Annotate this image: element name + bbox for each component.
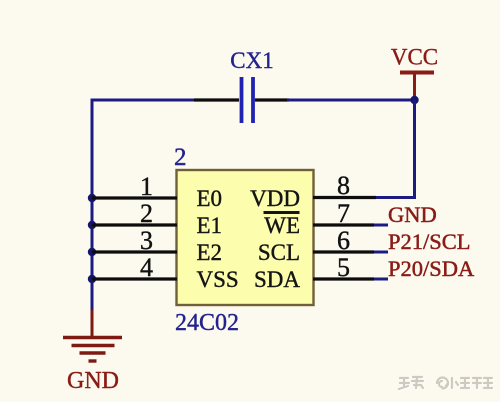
svg-text:7: 7 [337, 199, 350, 228]
svg-text:VSS: VSS [197, 267, 239, 292]
svg-text:P21/SCL: P21/SCL [388, 229, 471, 254]
junction [88, 248, 96, 256]
svg-text:VCC: VCC [391, 45, 438, 70]
pin 4 [92, 253, 177, 282]
junction [88, 194, 96, 202]
svg-text:WE: WE [264, 213, 300, 238]
watermark (decorative) [399, 377, 493, 390]
svg-text:SDA: SDA [254, 267, 300, 292]
svg-text:GND: GND [388, 202, 437, 227]
junction [88, 275, 96, 283]
svg-text:GND: GND [67, 368, 119, 394]
svg-text:2: 2 [140, 199, 153, 228]
pin 7 [313, 199, 388, 228]
IC U2 24C02 body [177, 170, 314, 305]
pin 6 [313, 226, 388, 255]
svg-text:5: 5 [337, 253, 350, 282]
svg-text:E0: E0 [197, 186, 223, 211]
junction [88, 221, 96, 229]
wire [92, 100, 199, 312]
pin name WE (active low) [264, 213, 301, 239]
svg-text:E2: E2 [197, 240, 223, 265]
svg-text:CX1: CX1 [230, 48, 273, 73]
pin 8 [313, 171, 376, 200]
wire [374, 100, 415, 198]
pin 5 [313, 253, 388, 282]
junction [410, 96, 418, 104]
svg-text:8: 8 [337, 171, 350, 200]
svg-text:2: 2 [174, 144, 187, 171]
capacitor CX1 [194, 77, 289, 123]
ground [63, 310, 122, 394]
power VCC [391, 45, 438, 100]
svg-text:E1: E1 [197, 213, 223, 238]
svg-text:SCL: SCL [258, 240, 300, 265]
pin 2 [92, 199, 177, 228]
svg-text:4: 4 [140, 253, 153, 282]
pin 3 [92, 226, 177, 255]
svg-text:1: 1 [140, 172, 153, 201]
pin 1 [92, 172, 177, 201]
svg-text:3: 3 [140, 226, 153, 255]
wire [287, 99, 415, 102]
svg-text:P20/SDA: P20/SDA [388, 256, 475, 281]
svg-text:VDD: VDD [250, 186, 300, 211]
svg-text:6: 6 [337, 226, 350, 255]
svg-text:24C02: 24C02 [175, 310, 239, 336]
